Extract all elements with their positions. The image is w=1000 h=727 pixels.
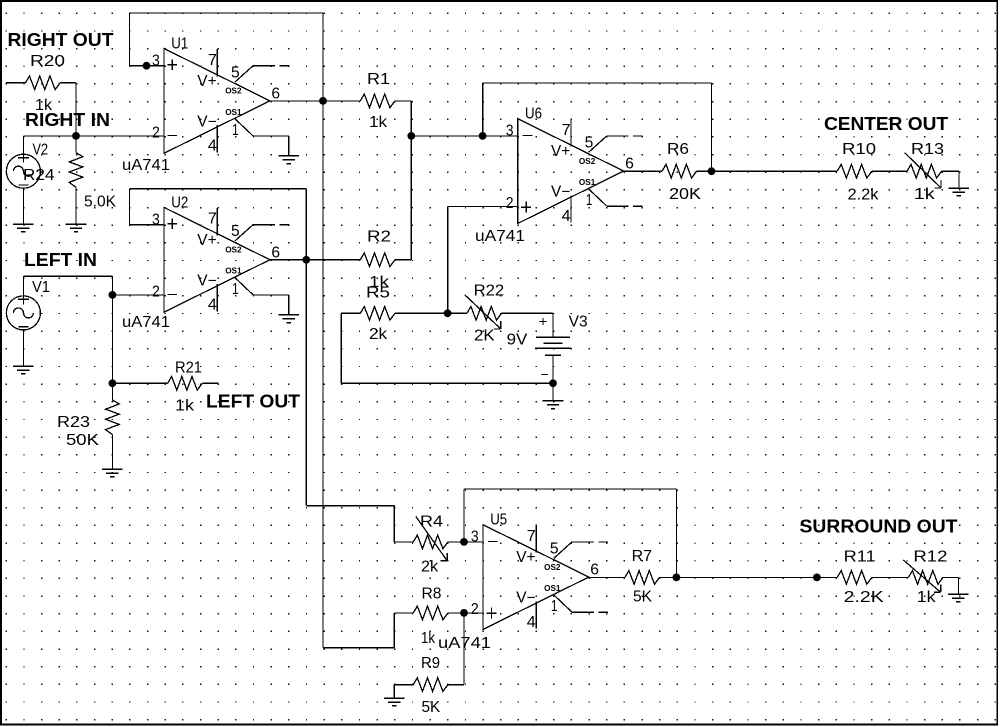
- resistor R12 (variable): [903, 560, 943, 592]
- wire: [22, 330, 24, 366]
- svg-text:2: 2: [152, 284, 160, 301]
- wire: [6, 82, 26, 84]
- wire: [872, 576, 909, 578]
- svg-text:2K: 2K: [474, 328, 495, 345]
- svg-text:R2: R2: [367, 229, 391, 246]
- svg-text:R10: R10: [842, 141, 876, 158]
- svg-text:1: 1: [232, 281, 239, 298]
- node R6/feedback junction: [708, 167, 716, 175]
- op-amp U5: [471, 512, 608, 631]
- node RIGHT IN junction: [72, 132, 80, 140]
- wire battery return: [341, 382, 553, 384]
- wire U6 feedback left: [482, 83, 484, 136]
- svg-text:R22: R22: [474, 283, 505, 300]
- svg-text:1: 1: [232, 122, 239, 139]
- wire U1 feedback top: [130, 12, 324, 14]
- wire surround out: [676, 576, 837, 578]
- wire R9 gnd stub: [393, 685, 395, 698]
- wire U1 feedback right: [322, 13, 324, 101]
- node U6 input junction: [479, 132, 487, 140]
- svg-text:3: 3: [152, 211, 160, 228]
- resistor R20: [26, 76, 61, 90]
- wire: [697, 170, 712, 172]
- svg-text:1k: 1k: [369, 114, 387, 131]
- wire U5 pin3: [464, 541, 483, 543]
- svg-text:2k: 2k: [369, 326, 387, 343]
- svg-text:7: 7: [208, 211, 217, 228]
- wire U2 feedback left: [129, 189, 131, 225]
- wire: [75, 187, 77, 224]
- wire: [943, 576, 958, 578]
- svg-text:R21: R21: [175, 360, 202, 377]
- svg-text:6: 6: [625, 156, 634, 173]
- wire: [60, 82, 76, 84]
- wire bus U2 horizontal: [306, 505, 394, 507]
- resistor R1: [360, 94, 395, 108]
- wire: [22, 136, 24, 154]
- wire U2 feedback right: [305, 189, 307, 260]
- svg-text:3: 3: [471, 529, 479, 546]
- ground (R24): [66, 224, 87, 232]
- wire bus from U1 output: [322, 101, 324, 648]
- wire U5 feedback top: [464, 488, 676, 490]
- wire: [111, 383, 113, 400]
- wire bus U1 rise: [393, 613, 395, 648]
- svg-text:OS1: OS1: [579, 177, 596, 187]
- svg-text:7: 7: [562, 122, 571, 139]
- svg-text:V2: V2: [33, 142, 49, 159]
- node U5 pin2 junction: [460, 609, 468, 617]
- wire bus from U2 output: [305, 260, 307, 506]
- wire battery top: [552, 313, 554, 337]
- node U1 pin3 junction: [143, 62, 151, 70]
- wire U6 output: [624, 170, 662, 172]
- label + (V3): [540, 318, 547, 325]
- svg-text:V−: V−: [197, 272, 216, 289]
- wire: [22, 188, 24, 224]
- wire R1-R2 join: [410, 101, 412, 260]
- svg-text:R6: R6: [667, 141, 689, 158]
- wire U5 pin2: [464, 612, 483, 614]
- ground (V1): [13, 366, 34, 374]
- svg-text:SURROUND OUT: SURROUND OUT: [800, 517, 958, 537]
- svg-text:1k: 1k: [421, 630, 435, 647]
- svg-text:1: 1: [586, 192, 593, 209]
- node LEFT OUT junction: [109, 379, 117, 387]
- svg-text:uA741: uA741: [438, 635, 491, 652]
- svg-text:2: 2: [471, 601, 479, 618]
- ground (R23): [102, 469, 123, 477]
- wire battery bottom: [552, 355, 554, 383]
- svg-text:50K: 50K: [66, 432, 100, 449]
- svg-text:LEFT IN: LEFT IN: [24, 250, 97, 270]
- svg-text:U2: U2: [171, 194, 188, 211]
- svg-text:uA741: uA741: [122, 157, 170, 174]
- wire: [448, 541, 464, 543]
- svg-text:4: 4: [527, 614, 536, 631]
- svg-text:LEFT OUT: LEFT OUT: [206, 392, 300, 412]
- svg-text:5: 5: [550, 541, 559, 558]
- wire: [395, 100, 411, 102]
- svg-text:U1: U1: [171, 35, 188, 52]
- node R7/feedback junction: [673, 574, 681, 582]
- svg-text:2k: 2k: [421, 559, 438, 576]
- wire center node: [411, 135, 482, 137]
- wire bus U2 drop: [393, 506, 395, 542]
- svg-text:U6: U6: [525, 106, 542, 123]
- svg-text:CENTER OUT: CENTER OUT: [824, 114, 948, 134]
- wire LEFT IN top: [23, 275, 112, 277]
- svg-text:V+: V+: [551, 143, 570, 160]
- svg-text:5K: 5K: [422, 699, 441, 716]
- svg-text:uA741: uA741: [122, 314, 170, 331]
- svg-text:OS1: OS1: [225, 107, 242, 117]
- svg-text:2.2K: 2.2K: [844, 589, 885, 606]
- resistor R21: [168, 377, 203, 391]
- wire U2 feedback top: [130, 188, 307, 190]
- wire LEFT IN drop: [111, 276, 113, 295]
- svg-text:R11: R11: [844, 549, 876, 566]
- svg-text:5: 5: [231, 223, 240, 240]
- svg-text:OS2: OS2: [544, 562, 561, 572]
- svg-text:OS1: OS1: [544, 583, 561, 593]
- svg-text:6: 6: [271, 244, 280, 261]
- wire: [448, 684, 464, 686]
- node battery minus junction: [549, 379, 557, 387]
- wire U2 pin2: [112, 294, 164, 296]
- svg-text:9V: 9V: [507, 332, 528, 349]
- wire U6 feedback right: [711, 83, 713, 171]
- svg-text:V−: V−: [516, 590, 535, 607]
- wire bus U1 horizontal: [323, 647, 394, 649]
- svg-text:4: 4: [208, 138, 217, 155]
- svg-text:V+: V+: [197, 232, 216, 249]
- ground (V3): [543, 401, 564, 409]
- op-amp U2: [152, 194, 299, 322]
- svg-text:R1: R1: [367, 71, 390, 88]
- svg-text:V1: V1: [32, 279, 50, 296]
- svg-text:uA741: uA741: [475, 228, 525, 245]
- wire: [958, 171, 960, 188]
- label - (V3): [541, 374, 548, 376]
- wire center out: [712, 170, 838, 172]
- wire U2 output: [270, 259, 360, 261]
- node R5/R22 junction: [444, 309, 452, 317]
- resistor R13 (variable): [905, 153, 942, 188]
- wire: [502, 312, 553, 314]
- svg-text:5: 5: [231, 64, 240, 81]
- op-amp U6: [506, 106, 643, 225]
- wire: [341, 312, 360, 314]
- op-amp U1: [152, 35, 299, 163]
- svg-text:V−: V−: [551, 184, 570, 201]
- wire U2 feedback pin3: [130, 224, 165, 226]
- svg-text:5.0K: 5.0K: [84, 194, 117, 211]
- svg-text:R12: R12: [913, 549, 947, 566]
- wire U6 pin2 drop: [447, 206, 449, 313]
- voltage source V1: [6, 294, 40, 330]
- wire: [202, 382, 218, 384]
- svg-text:R23: R23: [57, 414, 90, 431]
- svg-text:3: 3: [152, 53, 160, 70]
- resistor R10: [837, 164, 872, 178]
- wire: [112, 382, 167, 384]
- wire U6 pin2: [448, 205, 518, 207]
- node U2 output junction: [302, 256, 310, 264]
- wire U5 output: [589, 576, 625, 578]
- resistor R6: [662, 164, 697, 178]
- svg-text:RIGHT IN: RIGHT IN: [25, 110, 110, 130]
- ground (R13): [949, 188, 970, 196]
- wire: [75, 83, 77, 136]
- svg-text:OS2: OS2: [225, 86, 242, 96]
- voltage source V2: [6, 153, 40, 189]
- svg-text:7: 7: [527, 528, 536, 545]
- svg-text:V3: V3: [569, 314, 588, 331]
- node surround out: [813, 574, 821, 582]
- resistor R5: [360, 307, 395, 321]
- wire: [942, 170, 959, 172]
- wire: [394, 541, 413, 543]
- wire: [660, 576, 677, 578]
- wire U5 feedback left: [463, 489, 465, 542]
- wire: [957, 577, 959, 594]
- svg-text:V+: V+: [516, 549, 535, 566]
- wire U6 pin3: [483, 135, 518, 137]
- wire: [872, 170, 907, 172]
- svg-text:R20: R20: [30, 53, 65, 70]
- resistor R4 (variable): [413, 516, 448, 560]
- wire: [448, 312, 467, 314]
- svg-text:U5: U5: [490, 512, 507, 529]
- resistor R9: [413, 678, 448, 692]
- resistor R7: [625, 571, 660, 585]
- node U1 output junction: [319, 97, 327, 105]
- wire R9 rise: [463, 613, 465, 685]
- svg-text:1k: 1k: [175, 398, 194, 415]
- battery V3: [535, 337, 571, 355]
- wire U6 feedback top: [483, 82, 712, 84]
- wire U1 feedback left: [129, 13, 131, 66]
- svg-text:V+: V+: [197, 73, 216, 90]
- wire U5 feedback right: [675, 489, 677, 578]
- wire U1 feedback pin3: [130, 65, 165, 67]
- svg-text:5K: 5K: [633, 589, 653, 606]
- resistor R11: [837, 571, 872, 585]
- svg-text:4: 4: [562, 208, 571, 225]
- svg-text:R5: R5: [366, 285, 390, 302]
- node R1/R2 tap: [407, 132, 415, 140]
- svg-text:5: 5: [585, 135, 594, 152]
- node LEFT IN junction: [109, 291, 117, 299]
- svg-text:R9: R9: [421, 655, 440, 672]
- wire R5 left drop: [340, 313, 342, 383]
- svg-text:1k: 1k: [914, 186, 935, 203]
- svg-text:OS1: OS1: [225, 266, 242, 276]
- svg-text:1k: 1k: [917, 589, 936, 606]
- wire U1 output: [270, 100, 360, 102]
- svg-text:R13: R13: [911, 141, 944, 158]
- svg-text:OS2: OS2: [579, 156, 596, 166]
- ground (R9): [384, 698, 405, 706]
- svg-text:2: 2: [152, 125, 160, 142]
- wire: [23, 135, 164, 137]
- wire: [394, 684, 413, 686]
- svg-text:R7: R7: [632, 548, 652, 565]
- wire: [448, 612, 464, 614]
- svg-text:1: 1: [551, 598, 558, 615]
- svg-text:RIGHT OUT: RIGHT OUT: [8, 30, 114, 50]
- wire: [395, 312, 448, 314]
- resistor R24: [69, 153, 83, 188]
- wire: [395, 259, 411, 261]
- resistor R22 (variable): [465, 295, 502, 329]
- svg-text:20K: 20K: [669, 186, 702, 203]
- svg-text:V−: V−: [197, 113, 216, 130]
- svg-text:R8: R8: [422, 586, 442, 603]
- resistor R8: [413, 606, 448, 620]
- wire: [111, 435, 113, 469]
- resistor R2: [360, 253, 395, 267]
- node U5 pin3 junction: [460, 538, 468, 546]
- wire: [394, 612, 413, 614]
- wire LEFT IN bus down: [111, 295, 113, 383]
- wire V1 riser: [22, 276, 24, 296]
- ground (R12): [948, 594, 969, 602]
- svg-text:2: 2: [506, 195, 514, 212]
- svg-text:R24: R24: [23, 167, 55, 184]
- wire: [75, 136, 77, 153]
- svg-text:6: 6: [271, 85, 280, 102]
- svg-text:2.2k: 2.2k: [848, 187, 879, 204]
- resistor R23: [106, 400, 120, 435]
- svg-text:3: 3: [506, 123, 514, 140]
- svg-text:7: 7: [208, 52, 217, 69]
- ground (V2): [13, 224, 34, 232]
- wire: [552, 383, 554, 401]
- svg-text:OS2: OS2: [225, 245, 242, 255]
- svg-text:4: 4: [208, 297, 217, 314]
- svg-text:6: 6: [590, 562, 599, 579]
